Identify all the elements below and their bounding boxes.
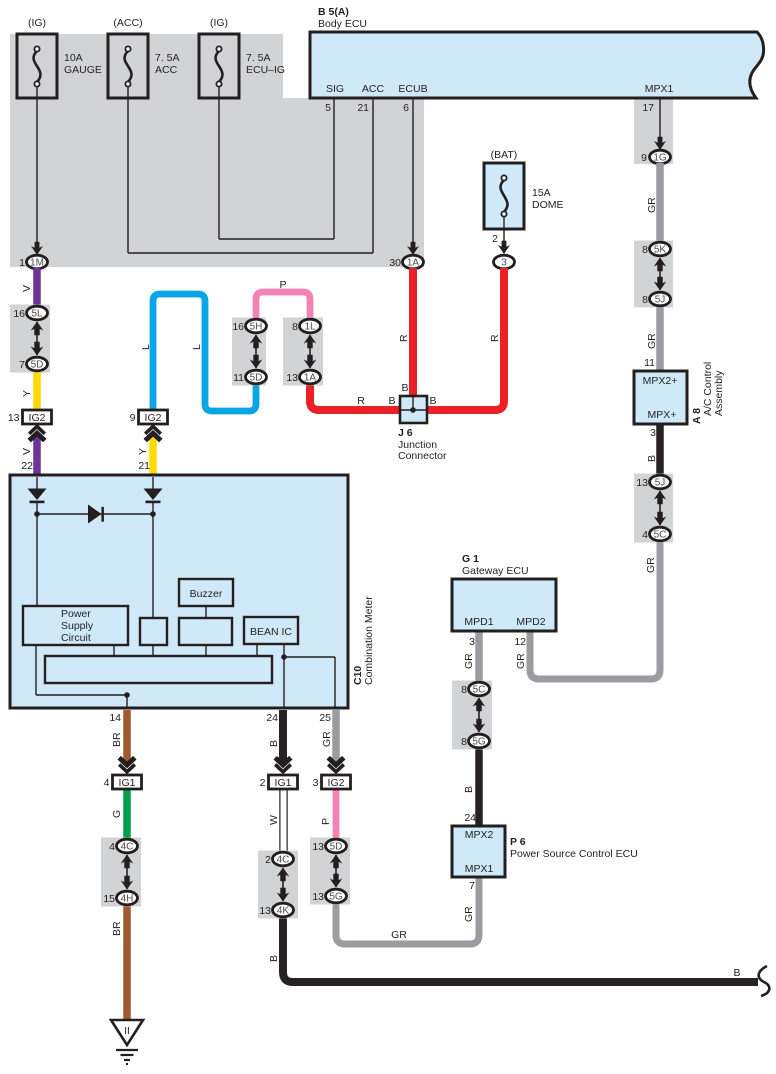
svg-text:B: B xyxy=(429,395,436,407)
svg-text:5D: 5D xyxy=(31,360,44,371)
connector IG2-3 chevrons xyxy=(328,758,344,772)
svg-text:(IG): (IG) xyxy=(210,17,228,29)
svg-text:5C: 5C xyxy=(654,530,667,541)
wire GR gray Power Source Control ECU MPX1 pin 7 to 5G(13) xyxy=(336,877,479,944)
ECU B5(A) Body ECU box xyxy=(310,32,764,98)
diode D3 horizontal xyxy=(88,505,104,524)
connector pair pair-G arrows xyxy=(121,855,134,890)
svg-text:5J: 5J xyxy=(655,295,666,306)
svg-text:V: V xyxy=(21,285,33,292)
svg-text:16: 16 xyxy=(13,308,25,320)
svg-text:R: R xyxy=(357,395,365,407)
svg-text:13: 13 xyxy=(312,841,324,853)
Body ECU pin SIG 5 xyxy=(325,83,344,114)
svg-text:4K: 4K xyxy=(277,906,290,917)
wire BEAN IC to meter pin 24 xyxy=(281,644,287,708)
svg-text:5: 5 xyxy=(325,102,331,114)
wire GR gray Combination Meter pin 25 to IG2(3) xyxy=(319,710,336,762)
Buzzer box xyxy=(179,579,233,606)
connector pair-F lower 5G pin 8 xyxy=(461,734,489,748)
wire fuse DOME to connector 3 xyxy=(492,217,510,254)
wire Body ECU ECUB pin 6 to connector 1A xyxy=(407,98,419,255)
Body ECU pin MPX1 17 xyxy=(642,83,673,114)
svg-text:GR: GR xyxy=(321,731,333,747)
wire R red 1A(13) to J6 to connector 3 xyxy=(310,268,504,410)
svg-text:IG1: IG1 xyxy=(275,777,292,789)
ECU G1 Gateway ECU box xyxy=(452,579,556,631)
diode D2 at pin 21 xyxy=(144,489,163,515)
connector pair-D upper 5K pin 8 xyxy=(642,242,670,256)
wire W white IG1(2) to 4C(2) xyxy=(268,789,288,853)
svg-text:B: B xyxy=(401,382,408,394)
connector pair-I lower 5G pin 13 xyxy=(312,889,346,903)
svg-text:7. 5A: 7. 5A xyxy=(246,52,271,64)
connector pair-F upper 5C pin 8 xyxy=(461,682,489,696)
connector IG2-13 box IG2 pin 13 xyxy=(8,410,52,424)
svg-text:P: P xyxy=(279,279,286,291)
svg-text:1A: 1A xyxy=(407,258,420,269)
meter wire pin22 branch to Power Supply Circuit xyxy=(36,514,38,606)
svg-text:Connector: Connector xyxy=(398,450,447,462)
svg-text:BR: BR xyxy=(111,921,123,936)
svg-text:5H: 5H xyxy=(250,322,263,333)
connector IG2-9 box IG2 pin 9 xyxy=(130,410,168,424)
connector pair-E upper 5J pin 13 xyxy=(636,475,670,489)
svg-text:(BAT): (BAT) xyxy=(491,149,518,161)
svg-text:5J: 5J xyxy=(655,478,666,489)
connector IG1-2 box IG1 pin 2 xyxy=(260,775,298,789)
connector IG2-3 box IG2 pin 3 xyxy=(313,775,351,789)
connector IG2-13 chevrons xyxy=(29,427,45,441)
wire V violet 1M to 5L xyxy=(21,268,37,308)
svg-text:Y: Y xyxy=(137,448,149,455)
connector pair pair-F arrows xyxy=(473,698,486,733)
svg-text:3: 3 xyxy=(313,777,319,789)
svg-text:(ACC): (ACC) xyxy=(113,17,142,29)
svg-text:14: 14 xyxy=(109,712,121,724)
svg-text:L: L xyxy=(140,344,152,350)
wire Buzzer to driver box xyxy=(205,606,207,618)
wire GR gray 1G to 5K xyxy=(646,163,660,243)
svg-text:30: 30 xyxy=(389,257,401,269)
svg-text:G 1: G 1 xyxy=(462,553,479,565)
svg-text:2: 2 xyxy=(492,233,498,245)
connector pair pair-F (5C/5G) shield xyxy=(452,681,492,750)
svg-text:12: 12 xyxy=(514,636,526,648)
svg-text:BR: BR xyxy=(111,732,123,747)
svg-text:2: 2 xyxy=(260,777,266,789)
connector pair pair-B (5H/5D) shield xyxy=(232,318,266,386)
Body ECU pin ECUB 6 xyxy=(398,83,427,114)
connector pair-D lower 5J pin 8 xyxy=(642,292,670,306)
svg-text:MPX1: MPX1 xyxy=(465,863,494,875)
svg-text:11: 11 xyxy=(644,357,655,369)
fuse 15A DOME (BAT) xyxy=(484,149,564,229)
connector pair-B upper 5H pin 16 xyxy=(232,319,266,333)
svg-text:24: 24 xyxy=(266,712,278,724)
connector 3 xyxy=(494,255,515,269)
connector pair pair-D arrows xyxy=(654,258,667,291)
svg-text:Power Source Control ECU: Power Source Control ECU xyxy=(510,848,638,860)
svg-text:SIG: SIG xyxy=(326,83,344,95)
svg-text:GAUGE: GAUGE xyxy=(64,64,102,76)
svg-text:1G: 1G xyxy=(653,153,667,164)
connector pair pair-C (1L/1A) shield xyxy=(283,318,323,386)
svg-text:B: B xyxy=(268,955,280,962)
svg-text:GR: GR xyxy=(463,653,475,669)
connector pair-B lower 5D pin 11 xyxy=(233,370,266,384)
connector IG2-9 chevrons xyxy=(145,427,161,441)
svg-text:IG2: IG2 xyxy=(29,412,46,424)
svg-text:MPX2: MPX2 xyxy=(465,829,494,841)
svg-text:9: 9 xyxy=(130,412,136,424)
wire B black A/C Control MPX+ pin 3 to 5J xyxy=(646,424,660,476)
svg-text:J 6: J 6 xyxy=(398,427,413,439)
svg-text:8: 8 xyxy=(292,321,298,333)
svg-text:21: 21 xyxy=(138,460,150,472)
connector pair pair-D (5K/5J) shield xyxy=(634,241,673,308)
svg-text:4: 4 xyxy=(104,777,110,789)
Body ECU pin ACC 21 xyxy=(357,83,384,114)
svg-text:4C: 4C xyxy=(121,842,134,853)
svg-text:8: 8 xyxy=(461,684,467,696)
connector pair-G upper 4C pin 4 xyxy=(109,839,137,853)
svg-text:B 5(A): B 5(A) xyxy=(318,6,349,18)
wire B black Combination Meter pin 24 to IG1(2) xyxy=(266,710,283,762)
meter pin 21 lead xyxy=(152,477,154,489)
wire V violet IG2 to Combination Meter pin 22 xyxy=(21,434,37,477)
svg-text:13: 13 xyxy=(312,891,324,903)
svg-text:13: 13 xyxy=(259,905,271,917)
svg-text:6: 6 xyxy=(403,102,409,114)
svg-text:Buzzer: Buzzer xyxy=(190,588,223,600)
svg-text:24: 24 xyxy=(464,812,476,824)
svg-text:ECU–IG: ECU–IG xyxy=(246,64,285,76)
svg-text:ACC: ACC xyxy=(155,64,178,76)
connector pair-C upper 1L pin 8 xyxy=(292,319,320,333)
svg-text:GR: GR xyxy=(463,906,475,922)
label C10 Combination Meter xyxy=(352,596,375,685)
wire Y yellow 5D to IG2 xyxy=(21,371,37,410)
svg-text:GR: GR xyxy=(515,653,527,669)
wire Y yellow IG2(9) to Combination Meter pin 21 xyxy=(137,434,153,477)
svg-text:MPD1: MPD1 xyxy=(464,616,493,628)
wire P pink IG2(3) to 5D(13) xyxy=(320,789,336,840)
diode D1 at pin 22 xyxy=(28,489,47,515)
wire B black 5G to Power Source Control ECU MPX2 pin 24 xyxy=(463,747,479,827)
svg-text:GR: GR xyxy=(391,929,407,941)
connector pair pair-A arrows xyxy=(31,322,44,356)
svg-text:11: 11 xyxy=(233,372,244,384)
wire fuse ECU-IG to Body ECU SIG pin 5 xyxy=(219,87,334,239)
connector pair pair-I arrows xyxy=(330,855,343,888)
connector pair pair-A (5L/5D) shield xyxy=(10,305,50,373)
svg-text:5D: 5D xyxy=(330,842,343,853)
connector pair-H upper 4C pin 2 xyxy=(265,852,293,866)
svg-text:Supply: Supply xyxy=(61,620,94,632)
connector 1A pin 30 xyxy=(389,255,423,269)
connector 1M pin 1 xyxy=(19,255,47,269)
svg-text:Assembly: Assembly xyxy=(713,370,725,416)
svg-text:Combination Meter: Combination Meter xyxy=(363,596,375,685)
connector pair-A lower 5D pin 7 xyxy=(19,357,47,371)
svg-text:ECUB: ECUB xyxy=(398,83,427,95)
fuse 7.5A ECU-IG (IG) xyxy=(199,17,285,98)
svg-text:3: 3 xyxy=(501,258,507,269)
svg-text:15: 15 xyxy=(103,893,115,905)
connector pair-H lower 4K pin 13 xyxy=(259,903,293,917)
svg-text:MPX2+: MPX2+ xyxy=(643,375,678,387)
svg-text:B: B xyxy=(268,740,280,747)
svg-text:B: B xyxy=(388,395,395,407)
svg-text:L: L xyxy=(191,344,203,350)
svg-text:8: 8 xyxy=(642,294,648,306)
svg-text:II: II xyxy=(124,1026,130,1037)
meter pin 22 lead xyxy=(36,477,38,489)
wire G green IG1 to 4C xyxy=(111,790,127,840)
svg-text:2: 2 xyxy=(265,854,271,866)
internal block small box xyxy=(140,618,167,656)
fuse 7.5A ACC (ACC) xyxy=(108,17,180,98)
label P6 Power Source Control ECU xyxy=(510,836,638,860)
svg-text:W: W xyxy=(268,815,280,825)
svg-text:GR: GR xyxy=(646,333,658,349)
Power Supply Circuit box xyxy=(23,606,128,645)
svg-text:DOME: DOME xyxy=(532,199,564,211)
wire BR brown 4H to ground xyxy=(111,904,127,1020)
BEAN IC box xyxy=(244,617,298,644)
wire GR gray Gateway ECU MPD1 pin 3 to 5C xyxy=(463,631,479,683)
svg-text:B: B xyxy=(463,786,475,793)
connector pair-G lower 4H pin 15 xyxy=(103,891,137,905)
svg-text:4C: 4C xyxy=(277,855,290,866)
svg-text:B: B xyxy=(733,967,740,979)
meter internal bus line between diodes xyxy=(34,511,156,517)
svg-text:B: B xyxy=(646,455,658,462)
svg-text:GR: GR xyxy=(645,557,657,573)
wire Body ECU MPX1 pin 17 to connector 1G xyxy=(654,98,666,150)
connector pair pair-B arrows xyxy=(250,335,263,369)
connector pair-A upper 5L pin 16 xyxy=(13,306,47,320)
shield behind MPX1 wire / connector 1G xyxy=(634,98,673,164)
svg-text:Power: Power xyxy=(61,608,91,620)
svg-text:ACC: ACC xyxy=(362,83,385,95)
svg-text:4: 4 xyxy=(109,841,115,853)
fuse 10A GAUGE (IG) xyxy=(17,17,102,98)
svg-text:7: 7 xyxy=(469,880,475,892)
connector IG1-2 chevrons xyxy=(275,758,291,772)
buzzer driver box xyxy=(179,618,232,656)
connector pair-E lower 5C pin 4 xyxy=(642,527,670,541)
svg-text:4: 4 xyxy=(642,529,648,541)
connector pair-I upper 5D pin 13 xyxy=(312,839,346,853)
label G1 Gateway ECU xyxy=(462,553,529,577)
svg-text:MPX1: MPX1 xyxy=(645,83,674,95)
meter wire pin21 branch to internal block xyxy=(152,514,154,618)
label J6 Junction Connector xyxy=(398,427,447,462)
svg-text:16: 16 xyxy=(232,321,244,333)
svg-text:Y: Y xyxy=(21,390,33,397)
svg-text:G: G xyxy=(111,810,123,818)
svg-text:1L: 1L xyxy=(304,322,316,333)
ECU A8 A/C Control Assembly box xyxy=(634,371,687,424)
svg-text:8: 8 xyxy=(461,736,467,748)
svg-text:5C: 5C xyxy=(473,685,486,696)
svg-text:25: 25 xyxy=(319,712,331,724)
connector pair pair-C arrows xyxy=(304,335,317,369)
svg-text:V: V xyxy=(21,448,33,455)
svg-text:22: 22 xyxy=(21,460,33,472)
connector pair pair-E arrows xyxy=(654,491,667,526)
svg-text:Gateway ECU: Gateway ECU xyxy=(462,565,529,577)
junction connector J6 box xyxy=(400,396,427,423)
connector 1G pin 9 xyxy=(641,150,670,164)
wire break symbol at right end xyxy=(759,966,770,996)
connector pair pair-I (5D/5G) shield xyxy=(310,838,350,905)
wire GR gray 5J to A/C Control MPX2+ pin 11 xyxy=(644,305,660,372)
connector pair pair-H arrows xyxy=(277,868,290,902)
svg-text:3: 3 xyxy=(650,427,656,439)
wire PSC to meter pin 14 xyxy=(36,645,130,708)
svg-text:IG2: IG2 xyxy=(145,412,162,424)
svg-text:MPX+: MPX+ xyxy=(648,409,677,421)
connector IG1-4 box IG1 pin 4 xyxy=(104,775,142,789)
svg-text:Body ECU: Body ECU xyxy=(318,18,367,30)
connector pair-C lower 1A pin 13 xyxy=(286,370,320,384)
svg-text:IG1: IG1 xyxy=(119,777,136,789)
svg-text:15A: 15A xyxy=(532,187,551,199)
wire B black 4K to right edge break xyxy=(268,916,758,982)
wire BR brown Combination Meter pin 14 to IG1 xyxy=(109,710,127,762)
svg-text:(IG): (IG) xyxy=(28,17,46,29)
svg-text:GR: GR xyxy=(646,197,658,213)
svg-text:13: 13 xyxy=(8,412,20,424)
svg-text:5K: 5K xyxy=(654,245,667,256)
label B 5(A) Body ECU xyxy=(318,6,367,30)
svg-text:P 6: P 6 xyxy=(510,836,526,848)
svg-text:R: R xyxy=(398,334,410,342)
connector pair pair-H (4C/4K) shield xyxy=(258,851,298,919)
svg-text:7. 5A: 7. 5A xyxy=(155,52,180,64)
svg-text:13: 13 xyxy=(286,372,298,384)
svg-text:1M: 1M xyxy=(30,258,44,269)
svg-text:1A: 1A xyxy=(304,373,317,384)
wire PSC to bus bar xyxy=(113,645,115,656)
svg-text:3: 3 xyxy=(469,636,475,648)
shaded power-distribution region xyxy=(10,34,424,267)
connector IG1-4 chevrons xyxy=(119,758,135,772)
svg-text:7: 7 xyxy=(19,359,25,371)
wire fuse GAUGE to connector 1M xyxy=(31,87,43,255)
svg-text:1: 1 xyxy=(19,257,25,269)
svg-text:Circuit: Circuit xyxy=(61,632,91,644)
meter internal bus bar box xyxy=(45,656,272,683)
svg-text:BEAN IC: BEAN IC xyxy=(250,626,292,638)
svg-text:13: 13 xyxy=(636,477,648,489)
svg-text:5L: 5L xyxy=(31,309,43,320)
wire R red 1A(30) to junction J6 xyxy=(398,268,413,398)
svg-text:MPD2: MPD2 xyxy=(516,616,545,628)
svg-text:R: R xyxy=(489,334,501,342)
connector pair pair-G (4C/4H) shield xyxy=(101,838,141,907)
svg-text:8: 8 xyxy=(642,244,648,256)
wire BEAN IC branch to meter pin 25 xyxy=(284,657,335,708)
wire BEAN IC to bus bar xyxy=(256,644,258,656)
svg-text:21: 21 xyxy=(357,102,369,114)
wire P pink 5H to 1L xyxy=(256,279,310,320)
label A8 A/C Control Assembly xyxy=(691,362,725,424)
svg-text:9: 9 xyxy=(641,152,647,164)
svg-text:5G: 5G xyxy=(472,737,486,748)
wire fuse ACC to Body ECU ACC pin 21 xyxy=(128,87,373,253)
ground symbol II xyxy=(111,1020,143,1064)
svg-text:5D: 5D xyxy=(250,373,263,384)
wire L blue IG2(9) loop to 5D xyxy=(140,294,256,411)
svg-text:P: P xyxy=(320,818,332,825)
svg-text:5G: 5G xyxy=(329,892,343,903)
ECU P6 Power Source Control ECU box xyxy=(452,826,505,877)
svg-text:4H: 4H xyxy=(121,894,134,905)
svg-text:10A: 10A xyxy=(64,52,83,64)
svg-text:IG2: IG2 xyxy=(328,777,345,789)
wire GR gray 5C to Gateway ECU MPD2 pin 12 xyxy=(514,540,660,679)
svg-text:17: 17 xyxy=(642,102,654,114)
connector pair pair-E (5J/5C) shield xyxy=(634,474,673,543)
ECU C10 Combination Meter box xyxy=(10,475,348,708)
